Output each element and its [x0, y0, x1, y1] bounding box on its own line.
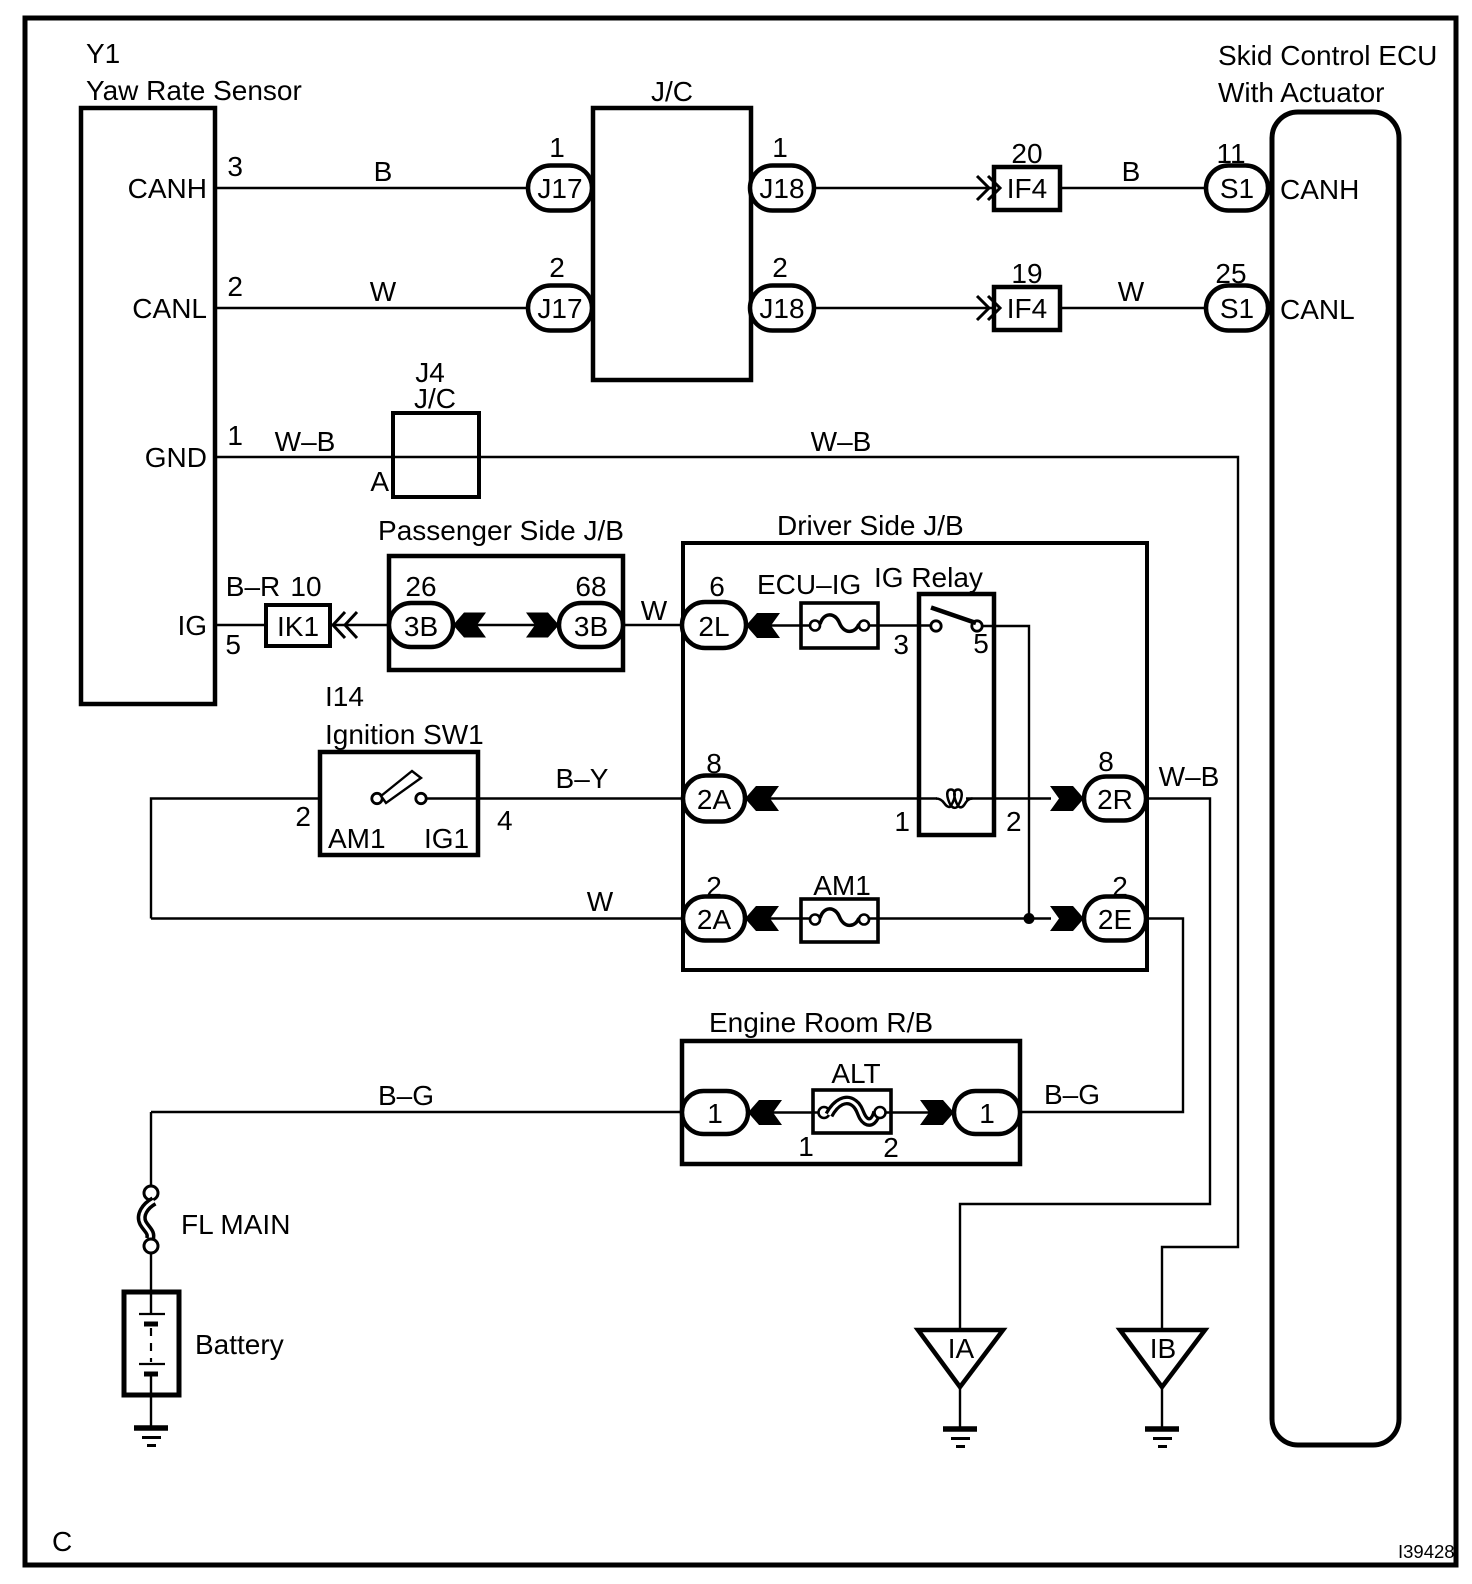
- svg-text:2: 2: [772, 252, 788, 283]
- svg-text:J17: J17: [537, 293, 582, 324]
- svg-text:J/C: J/C: [414, 383, 456, 414]
- svg-text:IA: IA: [948, 1333, 975, 1364]
- svg-text:3: 3: [227, 151, 243, 182]
- connector S1 pin11: [1206, 166, 1268, 211]
- wire relay 5 down to junction: [983, 626, 1030, 919]
- wire arrow to ALT fuse: [773, 1111, 824, 1113]
- arrow left at 3B26: [453, 613, 486, 638]
- wire J18 to IF4 row CANL: [814, 307, 994, 309]
- ground triangle IA: [918, 1330, 1003, 1387]
- svg-text:1: 1: [772, 132, 788, 163]
- svg-text:20: 20: [1011, 138, 1042, 169]
- svg-text:ALT: ALT: [831, 1058, 880, 1089]
- svg-text:1: 1: [979, 1098, 995, 1129]
- wire 2R to IA ground: [960, 799, 1210, 1331]
- chevrons out of IK1: [333, 612, 357, 638]
- wire IA to ground: [959, 1387, 961, 1429]
- svg-text:W: W: [1118, 276, 1145, 307]
- arrow right at 2E: [1050, 906, 1084, 931]
- svg-text:4: 4: [497, 805, 513, 836]
- IG relay box: [919, 594, 994, 835]
- connector pin1 right: [954, 1091, 1020, 1134]
- svg-text:2: 2: [549, 252, 565, 283]
- svg-text:Skid Control ECU: Skid Control ECU: [1218, 40, 1437, 71]
- svg-text:Ignition SW1: Ignition SW1: [325, 719, 484, 750]
- engine room R/B box: [682, 1041, 1020, 1164]
- switch contact AM1: [372, 793, 382, 803]
- wire AM1 fuse to 2E: [864, 917, 1051, 919]
- ground triangle IB: [1120, 1330, 1205, 1387]
- connector J18 pin1: [750, 166, 814, 211]
- battery internals: [139, 1292, 165, 1428]
- wire GND W-B from Y1 to right side: [215, 457, 1238, 1330]
- wire IF4 to S1 CANH: [1060, 187, 1206, 189]
- fuse ECU-IG box: [801, 603, 878, 648]
- arrow right at pin1: [920, 1100, 954, 1125]
- svg-text:10: 10: [290, 571, 321, 602]
- wire W bottom row to 2A pin2: [151, 917, 683, 919]
- connector IK1 box: [266, 605, 330, 646]
- svg-text:J18: J18: [759, 173, 804, 204]
- wire B-G battery to engine room: [151, 1111, 683, 1113]
- skid control ECU box: [1272, 112, 1399, 1445]
- wire AM1 side to left: [151, 799, 320, 919]
- svg-text:IK1: IK1: [277, 611, 319, 642]
- svg-text:ECU–IG: ECU–IG: [757, 569, 861, 600]
- svg-text:6: 6: [709, 571, 725, 602]
- junction dot: [1024, 913, 1035, 924]
- svg-text:25: 25: [1215, 258, 1246, 289]
- svg-text:19: 19: [1011, 258, 1042, 289]
- svg-text:CANL: CANL: [1280, 294, 1355, 325]
- connector pin1 left: [682, 1091, 748, 1134]
- svg-text:3B: 3B: [404, 611, 438, 642]
- svg-text:B–Y: B–Y: [556, 763, 609, 794]
- wire 2A8 to relay coil: [770, 797, 937, 799]
- connector 2A pin2: [683, 897, 745, 941]
- wire relay coil to 2R: [966, 797, 1051, 799]
- svg-text:B–G: B–G: [378, 1080, 434, 1111]
- svg-text:CANL: CANL: [132, 293, 207, 324]
- svg-text:26: 26: [405, 571, 436, 602]
- svg-text:2: 2: [227, 271, 243, 302]
- svg-text:S1: S1: [1220, 173, 1254, 204]
- wire CANL Y1 to J17: [215, 307, 532, 309]
- battery box: [124, 1292, 179, 1395]
- fusible link ALT box: [813, 1090, 891, 1133]
- connector 2L pin6: [682, 602, 746, 648]
- relay switch blade: [931, 608, 976, 624]
- svg-text:3: 3: [893, 629, 909, 660]
- relay contact 5: [972, 621, 982, 631]
- svg-text:IG1: IG1: [424, 823, 469, 854]
- arrow left at 2A2: [745, 906, 779, 931]
- driver side J/B box: [683, 543, 1147, 970]
- passenger side J/B box: [389, 556, 623, 670]
- wire FL MAIN to battery: [150, 1253, 152, 1292]
- connector 3B pin68: [559, 603, 623, 647]
- svg-text:2: 2: [295, 801, 311, 832]
- connector J17 pin2: [528, 286, 592, 331]
- svg-text:J17: J17: [537, 173, 582, 204]
- wire inside switch: [427, 797, 478, 799]
- arrow right at 2R: [1050, 786, 1084, 811]
- arrow left at 2L: [746, 613, 780, 638]
- svg-text:2A: 2A: [697, 904, 732, 935]
- ignition switch I14 box: [320, 752, 478, 855]
- svg-text:W: W: [587, 886, 614, 917]
- wire 3B to 2L: [623, 624, 683, 626]
- svg-text:CANH: CANH: [128, 173, 207, 204]
- svg-text:8: 8: [1098, 746, 1114, 777]
- svg-text:2: 2: [706, 871, 722, 902]
- svg-text:B–R: B–R: [226, 571, 280, 602]
- svg-text:1: 1: [227, 420, 243, 451]
- ground IA: [943, 1429, 977, 1447]
- svg-text:C: C: [52, 1526, 72, 1557]
- svg-text:IG: IG: [177, 610, 207, 641]
- svg-text:AM1: AM1: [813, 870, 871, 901]
- svg-text:I14: I14: [325, 681, 364, 712]
- svg-text:11: 11: [1216, 138, 1245, 169]
- svg-text:B: B: [1122, 156, 1141, 187]
- wire J18 to IF4 row CANH: [814, 187, 994, 189]
- arrow left at pin1: [748, 1100, 782, 1125]
- svg-text:1: 1: [798, 1131, 814, 1162]
- svg-text:Passenger Side J/B: Passenger Side J/B: [378, 515, 624, 546]
- wire between 3B arrows: [477, 624, 535, 626]
- ground IB: [1145, 1429, 1179, 1447]
- svg-text:2: 2: [1006, 806, 1022, 837]
- svg-text:J/C: J/C: [651, 76, 693, 107]
- chevrons into IF4 CANL: [977, 296, 1000, 320]
- wire B-G down to FL MAIN: [150, 1112, 152, 1186]
- svg-text:With Actuator: With Actuator: [1218, 77, 1385, 108]
- svg-text:J18: J18: [759, 293, 804, 324]
- svg-text:W–B: W–B: [275, 426, 336, 457]
- connector 2R pin8: [1084, 777, 1146, 821]
- wire IG1 to 2A pin8: [478, 797, 683, 799]
- connector J17 pin1: [528, 166, 592, 211]
- svg-text:AM1: AM1: [328, 823, 386, 854]
- junction block J/C box: [593, 108, 751, 380]
- svg-text:1: 1: [707, 1098, 723, 1129]
- wire 2A2 to AM1 fuse: [770, 917, 815, 919]
- svg-text:Battery: Battery: [195, 1329, 284, 1360]
- svg-text:W–B: W–B: [811, 426, 872, 457]
- svg-text:Engine Room R/B: Engine Room R/B: [709, 1007, 933, 1038]
- wire IB to ground: [1161, 1387, 1163, 1429]
- chevrons into IF4 CANH: [977, 176, 1000, 200]
- switch blade: [381, 771, 421, 803]
- connector IF4 pin19 box: [994, 287, 1060, 330]
- svg-text:FL MAIN: FL MAIN: [181, 1209, 290, 1240]
- svg-text:2R: 2R: [1097, 784, 1133, 815]
- junction connector J4 box: [393, 413, 479, 497]
- svg-text:3B: 3B: [574, 611, 608, 642]
- svg-text:Y1: Y1: [86, 38, 120, 69]
- connector 2A pin8: [683, 776, 745, 822]
- svg-text:B: B: [374, 156, 393, 187]
- yaw rate sensor Y1 box: [81, 108, 215, 704]
- connector J18 pin2: [750, 286, 814, 331]
- svg-text:2: 2: [883, 1132, 899, 1163]
- wire 2E down to B-G row: [1020, 919, 1183, 1113]
- svg-text:2E: 2E: [1098, 904, 1132, 935]
- svg-text:68: 68: [575, 571, 606, 602]
- wire ALT fuse to arrow: [880, 1111, 929, 1113]
- svg-text:CANH: CANH: [1280, 174, 1359, 205]
- wire fuse to relay contact 3: [864, 624, 936, 626]
- connector 2E pin2: [1084, 897, 1146, 941]
- svg-text:S1: S1: [1220, 293, 1254, 324]
- svg-text:W–B: W–B: [1159, 761, 1220, 792]
- connector S1 pin25: [1206, 286, 1268, 331]
- svg-text:2L: 2L: [698, 611, 729, 642]
- connector IF4 pin20 box: [994, 167, 1060, 210]
- relay contact 3: [931, 621, 941, 631]
- svg-text:IF4: IF4: [1007, 293, 1047, 324]
- wire CANH Y1 to J17: [215, 187, 532, 189]
- svg-text:5: 5: [225, 629, 241, 660]
- svg-text:Driver Side J/B: Driver Side J/B: [777, 510, 964, 541]
- fuse AM1 box: [801, 899, 878, 942]
- switch contact IG1: [416, 793, 426, 803]
- svg-text:8: 8: [706, 748, 722, 779]
- connector 3B pin26: [389, 603, 453, 647]
- svg-text:IG Relay: IG Relay: [874, 562, 983, 593]
- svg-text:1: 1: [549, 132, 565, 163]
- relay coil: [936, 790, 973, 808]
- svg-text:2A: 2A: [697, 784, 732, 815]
- svg-text:Yaw Rate Sensor: Yaw Rate Sensor: [86, 75, 302, 106]
- svg-text:2: 2: [1112, 871, 1128, 902]
- wire IK1 to 3B: [330, 624, 392, 626]
- svg-text:I39428: I39428: [1398, 1541, 1455, 1562]
- arrow left at 2A8: [745, 786, 779, 811]
- svg-text:B–G: B–G: [1044, 1079, 1100, 1110]
- svg-text:GND: GND: [145, 442, 207, 473]
- arrow right at 3B68: [526, 613, 559, 638]
- wire IG Y1 to IK1: [215, 624, 266, 626]
- wire 2L arrow to fuse: [771, 624, 815, 626]
- svg-text:W: W: [641, 595, 668, 626]
- svg-text:1: 1: [894, 806, 910, 837]
- svg-text:IF4: IF4: [1007, 173, 1047, 204]
- svg-text:IB: IB: [1150, 1333, 1176, 1364]
- wire IF4 to S1 CANL: [1060, 307, 1206, 309]
- ground battery: [134, 1428, 168, 1446]
- fusible link FL MAIN: [142, 1186, 158, 1253]
- svg-text:5: 5: [973, 628, 989, 659]
- svg-text:A: A: [370, 466, 389, 497]
- svg-text:W: W: [370, 276, 397, 307]
